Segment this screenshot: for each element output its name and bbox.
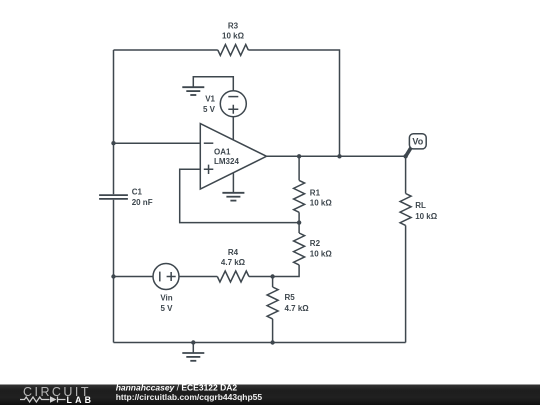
svg-text:Vin: Vin [160,294,172,303]
svg-text:RL: RL [415,201,426,210]
svg-text:5 V: 5 V [160,304,173,313]
svg-text:R4: R4 [228,248,239,257]
svg-text:10 kΩ: 10 kΩ [222,31,245,40]
svg-text:LM324: LM324 [214,157,239,166]
svg-text:R2: R2 [310,239,321,248]
svg-text:hannahccasey / ECE3122 DA2: hannahccasey / ECE3122 DA2 [116,382,238,392]
svg-text:C1: C1 [132,187,143,196]
svg-text:4.7 kΩ: 4.7 kΩ [285,304,310,313]
svg-text:http://circuitlab.com/cqgrb443: http://circuitlab.com/cqgrb443qhp55 [116,392,263,402]
svg-text:20 nF: 20 nF [132,198,153,207]
svg-text:10 kΩ: 10 kΩ [310,199,333,208]
svg-text:R1: R1 [310,188,321,197]
svg-text:R5: R5 [285,293,296,302]
svg-text:LAB: LAB [67,395,92,405]
svg-text:4.7 kΩ: 4.7 kΩ [221,258,246,267]
svg-text:R3: R3 [228,21,239,30]
svg-text:V1: V1 [205,94,215,103]
svg-text:10 kΩ: 10 kΩ [310,250,333,259]
svg-text:OA1: OA1 [214,148,231,157]
svg-text:10 kΩ: 10 kΩ [415,212,438,221]
svg-text:5 V: 5 V [203,105,216,114]
svg-text:Vo: Vo [412,137,423,147]
